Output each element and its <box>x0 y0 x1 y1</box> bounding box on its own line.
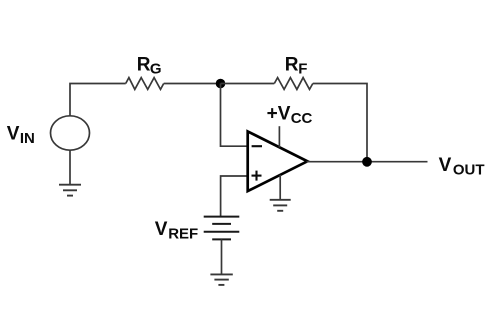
svg-text:R: R <box>137 55 151 76</box>
output node junction dot <box>362 157 372 167</box>
wire: non-inverting input to V_REF battery <box>221 176 248 217</box>
svg-text:F: F <box>298 61 307 78</box>
svg-text:V: V <box>7 124 20 145</box>
wire: R_F to output node <box>313 84 367 162</box>
op-amp U1 non-inverting input marker <box>252 171 262 181</box>
ground (op-amp negative supply) <box>270 200 291 211</box>
battery V_REF <box>204 217 240 240</box>
wire: feedback node A to inverting input <box>221 84 248 147</box>
wire: V_REF battery to ground <box>221 239 223 274</box>
resistor R_G <box>126 78 164 90</box>
svg-text:CC: CC <box>291 110 313 127</box>
label V_OUT <box>439 155 485 179</box>
ground (below V_IN) <box>59 185 81 196</box>
svg-text:V: V <box>155 219 168 240</box>
wire: V_IN top to node A <box>70 84 126 116</box>
svg-text:R: R <box>285 55 299 76</box>
label V_REF <box>155 219 198 243</box>
label R_F <box>285 55 308 78</box>
wire: R_G to node A <box>164 83 221 85</box>
node A junction dot <box>216 79 226 89</box>
svg-text:OUT: OUT <box>453 162 485 179</box>
label +V_CC <box>267 104 313 127</box>
voltage source V_IN <box>51 116 90 150</box>
op-amp U1 inverting input marker <box>252 145 262 147</box>
wire: V_IN bottom to ground <box>69 150 71 185</box>
svg-text:REF: REF <box>168 226 198 243</box>
wire: node A to R_F <box>221 83 275 85</box>
op-amp U1 <box>248 131 308 191</box>
resistor R_F <box>274 78 313 90</box>
svg-text:+V: +V <box>267 104 291 125</box>
svg-text:IN: IN <box>20 130 35 147</box>
wire: op-amp output <box>307 161 428 163</box>
wire: +V_CC supply to op-amp <box>278 126 280 147</box>
svg-text:V: V <box>439 155 452 176</box>
ground (below V_REF) <box>210 274 232 285</box>
label V_IN <box>7 124 35 148</box>
svg-text:G: G <box>150 61 162 78</box>
label R_G <box>137 55 162 78</box>
wire: op-amp negative supply to ground <box>279 175 281 200</box>
